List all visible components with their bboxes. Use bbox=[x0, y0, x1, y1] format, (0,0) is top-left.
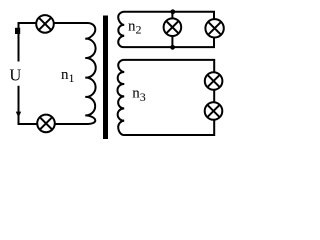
svg-text:U: U bbox=[9, 65, 21, 84]
